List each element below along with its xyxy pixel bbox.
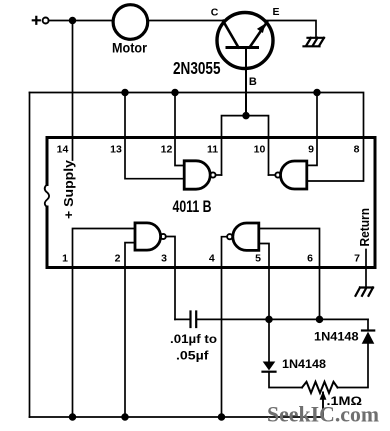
svg-text:2N3055: 2N3055	[173, 58, 221, 78]
ground bottom right	[356, 288, 374, 296]
potentiometer R1 .1M	[302, 382, 338, 417]
svg-text:4: 4	[209, 253, 215, 265]
wire gate2 output	[269, 174, 276, 176]
junction pin9 top	[314, 90, 320, 96]
svg-text:13: 13	[110, 144, 122, 156]
svg-text:14: 14	[57, 144, 69, 156]
wire pin9 to gate	[307, 93, 317, 166]
wire pin13 to gate	[125, 93, 184, 179]
wire gate4 input pin6	[259, 229, 320, 320]
wire base bar to pins 11 and 10	[222, 116, 269, 175]
wire motor to collector	[148, 20, 226, 22]
junction rail pin2	[122, 414, 128, 420]
svg-text:SeekIC.com: SeekIC.com	[267, 402, 379, 427]
svg-text:5: 5	[255, 253, 261, 265]
diode D1 1N4148 down	[263, 362, 303, 388]
IC U1 4011B box	[45, 138, 375, 268]
wire pin12 to gate	[175, 93, 184, 166]
wire supply top	[49, 20, 113, 22]
wire gate4 input pin5	[259, 244, 269, 362]
ground top right	[304, 38, 325, 47]
junction cap pin6	[317, 317, 323, 323]
wire pin2	[125, 243, 135, 417]
wire outer top rail	[30, 93, 364, 182]
NAND gate U1a	[184, 161, 215, 189]
svg-text:1N4148: 1N4148	[282, 357, 326, 371]
svg-text:E: E	[272, 6, 279, 18]
svg-text:.05µf: .05µf	[176, 349, 210, 363]
transistor Q1 2N3055	[217, 13, 273, 69]
svg-text:12: 12	[161, 144, 173, 156]
junction supply	[70, 18, 76, 24]
wire +supply vertical upper	[72, 21, 74, 161]
svg-text:3: 3	[161, 253, 167, 265]
junction cap pin5	[266, 317, 272, 323]
junction rail pin1	[70, 414, 76, 420]
wire pin1 supply lower	[73, 229, 136, 418]
svg-text:4011 B: 4011 B	[173, 197, 212, 216]
capacitor C1	[175, 312, 368, 328]
svg-text:10: 10	[254, 144, 266, 156]
junction rail pin4	[219, 414, 225, 420]
svg-text:C: C	[211, 7, 219, 19]
svg-text:1: 1	[62, 253, 68, 265]
svg-text:1N4148: 1N4148	[314, 330, 359, 344]
svg-text:Motor: Motor	[112, 40, 147, 56]
wire gate4 output pin4	[222, 237, 228, 417]
wire gate3 output to pin3	[166, 237, 175, 320]
wire gate1 output	[216, 174, 222, 176]
wire outer left vertical	[29, 93, 31, 418]
svg-text:.01µf to: .01µf to	[170, 332, 217, 346]
junction pin12 top	[172, 90, 178, 96]
svg-text:B: B	[249, 76, 257, 88]
wire emitter to ground	[265, 21, 316, 37]
svg-text:8: 8	[354, 144, 360, 156]
svg-text:2: 2	[115, 253, 121, 265]
svg-text:11: 11	[207, 144, 218, 156]
wire bottom rail	[30, 416, 324, 418]
svg-text:9: 9	[308, 144, 314, 156]
junction pin13 top	[122, 90, 128, 96]
NAND gate U1c	[135, 223, 166, 250]
svg-text:+ Supply: + Supply	[62, 160, 76, 219]
svg-text:6: 6	[307, 253, 313, 265]
wire base	[245, 48, 247, 116]
diode D2 1N4148 up	[338, 319, 375, 387]
NAND gate U1d	[227, 223, 259, 250]
svg-text:Return: Return	[358, 208, 372, 247]
NAND gate U1b	[275, 161, 307, 189]
svg-text:7: 7	[354, 253, 360, 265]
wire pin7 return	[365, 250, 367, 288]
motor M1	[113, 5, 148, 40]
node + terminal	[33, 17, 49, 24]
junction base	[243, 113, 249, 119]
